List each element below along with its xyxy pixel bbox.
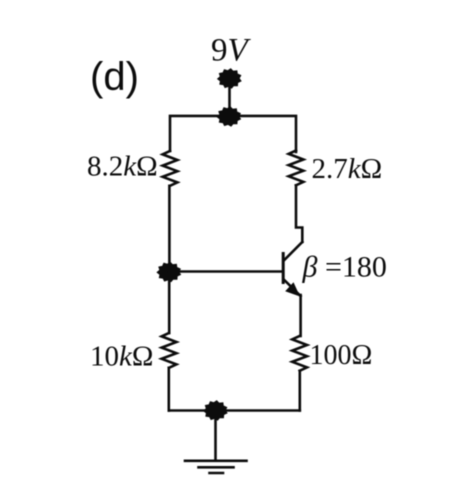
- wire: ground stem: [214, 411, 217, 461]
- svg-text:100Ω: 100Ω: [310, 340, 373, 371]
- transistor Q1 emitter diagonal: [284, 280, 301, 297]
- ground symbol: [185, 461, 247, 473]
- wire: top rail with corners: [170, 116, 296, 152]
- wire: base node down to R3: [168, 272, 171, 333]
- resistor R2 2.7kΩ zigzag: [289, 151, 304, 186]
- svg-text:9V: 9V: [211, 33, 252, 69]
- wire: emitter to R4: [299, 295, 302, 336]
- svg-text:(d): (d): [90, 55, 139, 99]
- node: base divider junction dot: [158, 263, 179, 280]
- wire: R3 to bottom rail: [168, 368, 171, 411]
- junction: ground node dot: [205, 402, 226, 419]
- svg-text:2.7kΩ: 2.7kΩ: [312, 153, 383, 185]
- supply terminal dot: [219, 70, 240, 87]
- wire: supply stem: [228, 80, 231, 117]
- wire: base wire to transistor: [169, 270, 282, 273]
- junction: top rail node: [218, 108, 239, 125]
- transistor Q1 emitter arrowhead: [285, 282, 300, 296]
- resistor R1 8.2kΩ zigzag: [163, 151, 178, 186]
- transistor Q1 base bar: [282, 254, 285, 283]
- resistor R4 100Ω zigzag: [292, 336, 307, 371]
- wire: R4 to bottom rail: [298, 371, 301, 411]
- wire: R2 to collector with jog: [296, 185, 302, 242]
- svg-text:β =180: β =180: [302, 251, 387, 284]
- transistor Q1 collector diagonal: [284, 242, 303, 261]
- wire: left branch R1 to base node: [168, 186, 171, 272]
- wire: bottom rail: [169, 409, 300, 412]
- resistor R3 10kΩ zigzag: [162, 333, 177, 368]
- svg-text:10kΩ: 10kΩ: [90, 341, 153, 373]
- svg-text:8.2kΩ: 8.2kΩ: [87, 151, 158, 183]
